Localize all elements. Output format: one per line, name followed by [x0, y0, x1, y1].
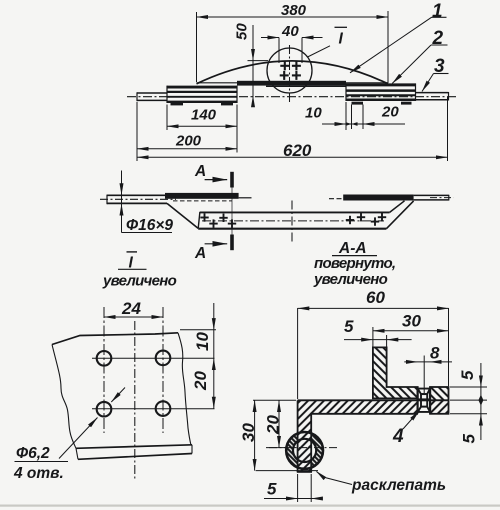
- dimension 5 wall: [344, 335, 412, 347]
- hole column centerline right: [162, 307, 164, 433]
- dimension 140: [167, 105, 237, 153]
- leader F6.2 upper part: [111, 388, 125, 403]
- leader detail I mark: [308, 46, 331, 57]
- plate bottom edge (double): [76, 445, 192, 449]
- plate axis centerline: [134, 321, 136, 480]
- svg-text:I: I: [129, 255, 134, 272]
- bar bottom edge: [198, 228, 386, 230]
- rivet head centerline: [269, 447, 338, 449]
- arch plate item 1 curve: [197, 61, 389, 84]
- angle bracket wall and foot (hatched): [373, 347, 418, 398]
- plate right break line: [178, 333, 191, 445]
- svg-text:расклепать: расклепать: [351, 477, 446, 494]
- flange plate with rivet leg (hatched): [298, 400, 418, 472]
- detail title I overbar: [127, 251, 138, 253]
- svg-text:20: 20: [381, 104, 399, 121]
- svg-text:повернуто,: повернуто,: [314, 255, 395, 272]
- dimension 30 top: [373, 327, 449, 347]
- svg-text:5: 5: [344, 317, 354, 336]
- svg-text:20: 20: [191, 371, 210, 391]
- right side extension lines: [450, 387, 487, 414]
- right pad plate stack: [346, 83, 416, 86]
- crank diagonal left: [167, 203, 198, 228]
- svg-text:1: 1: [432, 1, 443, 22]
- right pad foot 2: [401, 102, 412, 105]
- svg-text:Ф6,2: Ф6,2: [16, 445, 50, 462]
- right lower block (hatched): [430, 400, 449, 414]
- top edge extension line: [180, 329, 216, 331]
- svg-text:40: 40: [281, 23, 299, 40]
- left pad plate stack: [167, 86, 237, 89]
- leg bottom edge: [297, 471, 312, 473]
- hole crosses left group: [200, 213, 236, 228]
- row centerline 2: [92, 408, 215, 410]
- svg-text:увеличено: увеличено: [313, 271, 388, 288]
- svg-text:60: 60: [366, 288, 385, 307]
- section line A-A bottom mark: [230, 235, 234, 251]
- dimension 200: [137, 102, 237, 161]
- svg-text:24: 24: [121, 299, 141, 318]
- leader rasklepat: [317, 472, 353, 485]
- dimension 50: [248, 25, 269, 104]
- crank top diagonal right: [390, 201, 405, 213]
- label underline: [15, 461, 69, 463]
- hole bottom-right: [156, 401, 171, 416]
- svg-text:I: I: [339, 31, 344, 48]
- leader item 2: [431, 44, 448, 46]
- detail I circle: [267, 48, 312, 93]
- svg-text:5: 5: [267, 480, 277, 499]
- dimension F16x9: [122, 171, 173, 233]
- arch plate bottom chord right: [346, 82, 388, 84]
- bottom strip left segment: [137, 92, 167, 94]
- section line A-A thin line: [231, 188, 233, 235]
- plate left break line: [52, 345, 76, 449]
- rivet 4 spool: [418, 389, 430, 412]
- left pad foot 2: [221, 103, 233, 106]
- svg-text:20: 20: [264, 415, 283, 435]
- right end strip side: [414, 194, 449, 196]
- svg-text:140: 140: [191, 107, 217, 124]
- leader item 3: [434, 73, 449, 75]
- svg-text:10: 10: [305, 105, 322, 122]
- dimension 620: [137, 97, 448, 161]
- crank bottom diagonal right: [386, 201, 413, 229]
- left pad foot 1: [171, 103, 184, 106]
- dimension 20 left: [266, 400, 288, 447]
- bar left edge: [198, 212, 200, 229]
- svg-text:Ф16×9: Ф16×9: [126, 217, 173, 234]
- svg-text:4 отв.: 4 отв.: [13, 465, 64, 482]
- arch plate bottom chord left: [197, 82, 238, 84]
- svg-text:2: 2: [432, 28, 444, 49]
- dimension 60: [298, 308, 449, 399]
- svg-text:30: 30: [402, 312, 421, 331]
- dimensions 10 and 20 at right pad: [322, 102, 405, 130]
- svg-text:3: 3: [434, 56, 445, 77]
- rivet head circle hatched: [286, 432, 323, 469]
- dimension 30 left: [253, 400, 318, 470]
- svg-text:5: 5: [458, 370, 477, 380]
- part vertical centerline: [289, 45, 291, 103]
- section line A-A top mark: [230, 172, 234, 188]
- part vertical centerline: [291, 201, 293, 244]
- bar axis centerline: [202, 220, 384, 222]
- leader item 1: [432, 16, 447, 18]
- hole column centerline left: [103, 307, 105, 433]
- svg-text:4: 4: [392, 426, 404, 447]
- left pad side band: [165, 193, 239, 199]
- rivet head circles: [286, 432, 323, 469]
- svg-text:30: 30: [239, 423, 258, 442]
- strip axis stub right of left pad band: [239, 197, 252, 199]
- leader F6.2 lower part: [59, 418, 98, 459]
- plate top edge: [52, 333, 178, 345]
- leader item 4: [403, 411, 420, 430]
- hole crosses right group: [346, 213, 386, 226]
- right pad foot 1: [352, 102, 364, 105]
- dimension 5 bottom: [264, 474, 316, 502]
- bar top edge: [200, 211, 390, 213]
- svg-text:380: 380: [281, 2, 307, 19]
- dimension 10 and 20 vertical line: [213, 303, 215, 409]
- dimension 5 upper right: [478, 363, 483, 440]
- dimension 40: [261, 38, 323, 64]
- bottom strip right segment: [416, 92, 449, 94]
- svg-text:620: 620: [283, 141, 312, 160]
- right pad side band: [343, 195, 413, 201]
- svg-text:200: 200: [175, 133, 202, 150]
- svg-text:A: A: [194, 163, 206, 180]
- dimension 24: [104, 316, 163, 318]
- strip axis centerline: [127, 96, 458, 98]
- dimension 8: [404, 356, 452, 394]
- svg-text:8: 8: [430, 344, 440, 363]
- hidden edge dashes under left pad: [173, 200, 232, 202]
- dashes left of right pad band: [329, 198, 343, 200]
- hole top-right: [156, 351, 171, 366]
- row centerline 1: [92, 357, 215, 359]
- section title underline: [332, 255, 377, 257]
- svg-text:50: 50: [234, 23, 251, 40]
- dimension 380: [197, 11, 389, 83]
- short bar line right of center: [266, 85, 346, 87]
- hole bottom-left: [97, 402, 112, 417]
- hole cross marks (4 holes): [280, 61, 301, 80]
- center bar band between pads: [237, 81, 346, 86]
- detail title underline: [118, 268, 147, 270]
- svg-text:увеличено: увеличено: [102, 273, 177, 290]
- hole top-left: [97, 351, 112, 366]
- left end strip side: [107, 194, 167, 196]
- svg-text:A: A: [194, 245, 206, 262]
- svg-text:10: 10: [193, 332, 212, 351]
- svg-text:5: 5: [460, 434, 479, 444]
- right upper block (hatched): [430, 387, 449, 400]
